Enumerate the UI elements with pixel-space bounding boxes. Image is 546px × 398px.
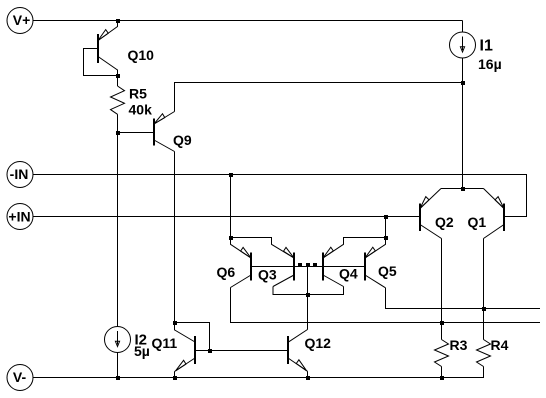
svg-text:Q9: Q9: [173, 132, 192, 148]
transistor Q9: [118, 112, 175, 152]
wire +IN to node B: [385, 217, 387, 238]
transistor Q4: [323, 238, 386, 287]
resistor R3: [435, 340, 449, 378]
junction V- / R3: [440, 376, 444, 380]
terminal +IN: [7, 204, 33, 230]
svg-text:V-: V-: [13, 369, 27, 385]
junction Q5 line / Q1 collector: [482, 307, 486, 311]
node A quad left emitter junction: [229, 236, 233, 240]
junction Q11 base tie: [208, 349, 212, 353]
svg-text:Q11: Q11: [152, 335, 178, 351]
terminal V+: [7, 8, 33, 34]
wire V+ rail: [33, 20, 463, 22]
svg-text:Q2: Q2: [435, 214, 454, 230]
svg-text:5µ: 5µ: [134, 343, 150, 359]
wire -IN to node A: [230, 175, 232, 238]
svg-text:40k: 40k: [129, 102, 153, 118]
junction base line middle: [306, 263, 310, 267]
transistor Q5: [365, 238, 386, 288]
svg-text:Q3: Q3: [258, 267, 277, 283]
wire Q1 collector to R4: [483, 239, 485, 340]
junction emitter bus / I1: [461, 187, 465, 191]
wire quad common base line: [251, 266, 365, 268]
wire Q11 collector-base tie: [175, 323, 210, 351]
wire Q1/Q2 emitter bus: [441, 188, 484, 190]
junction base line left: [298, 263, 302, 267]
junction -IN / quad left emitters: [229, 173, 233, 177]
wire Q2 collector to R3: [441, 239, 443, 340]
transistor Q1: [484, 189, 505, 239]
wire -IN line: [33, 175, 527, 217]
junction Q3/Q4 collectors to base vertical: [306, 293, 310, 297]
junction Q6 line / Q2 collector: [440, 321, 444, 325]
current source I1: [450, 21, 476, 189]
svg-text:+IN: +IN: [8, 209, 30, 225]
node B quad right emitter junction: [384, 236, 388, 240]
svg-text:V+: V+: [13, 12, 31, 28]
junction I1 / Q9 emitter line: [461, 81, 465, 85]
wire Q11/Q12 base line: [195, 350, 288, 352]
junction V- / Q12 emitter: [306, 376, 310, 380]
wire Q9 emitter to I1 node: [175, 83, 463, 112]
junction V+ rail / Q10 emitter: [116, 19, 120, 23]
current source I2: [105, 327, 131, 378]
transistor Q12: [288, 330, 308, 378]
wire R5 bottom to I2: [117, 133, 119, 327]
transistor Q11: [175, 323, 196, 378]
wire Q9 collector down: [174, 152, 176, 323]
wire quad base to Q12 collector: [307, 267, 309, 330]
junction V- / Q11 emitter: [173, 376, 177, 380]
resistor R4: [477, 340, 491, 378]
svg-text:Q4: Q4: [339, 266, 358, 282]
wire +IN line: [33, 216, 420, 218]
svg-text:R3: R3: [450, 337, 468, 353]
svg-text:Q12: Q12: [305, 335, 332, 351]
wire Q3/Q4 collector tie: [273, 287, 344, 295]
junction base line right: [313, 263, 317, 267]
junction R5 bottom / Q9 base: [116, 131, 120, 135]
svg-text:Q5: Q5: [378, 263, 397, 279]
junction Q9 collector / Q11 collector: [173, 321, 177, 325]
transistor Q6: [231, 238, 252, 288]
svg-text:-IN: -IN: [10, 166, 29, 182]
svg-text:Q10: Q10: [128, 47, 155, 63]
transistor Q3: [231, 238, 295, 287]
resistor R5: [111, 76, 125, 133]
svg-text:R4: R4: [491, 337, 509, 353]
wire Q6 collector to output line: [231, 288, 541, 323]
transistor Q2: [420, 189, 442, 239]
svg-text:R5: R5: [129, 86, 147, 102]
svg-text:I1: I1: [480, 38, 493, 55]
wire Q5 collector to output line: [386, 288, 541, 309]
svg-text:16µ: 16µ: [478, 56, 502, 72]
junction +IN / quad right emitters: [384, 215, 388, 219]
junction V- / I2: [116, 376, 120, 380]
wire V- rail: [33, 367, 484, 378]
terminal -IN: [7, 162, 33, 188]
svg-text:Q6: Q6: [217, 264, 236, 280]
terminal V-: [7, 365, 33, 391]
svg-text:Q1: Q1: [468, 214, 487, 230]
junction Q10 collector/base/R5: [116, 74, 120, 78]
transistor Q10: [84, 21, 118, 76]
